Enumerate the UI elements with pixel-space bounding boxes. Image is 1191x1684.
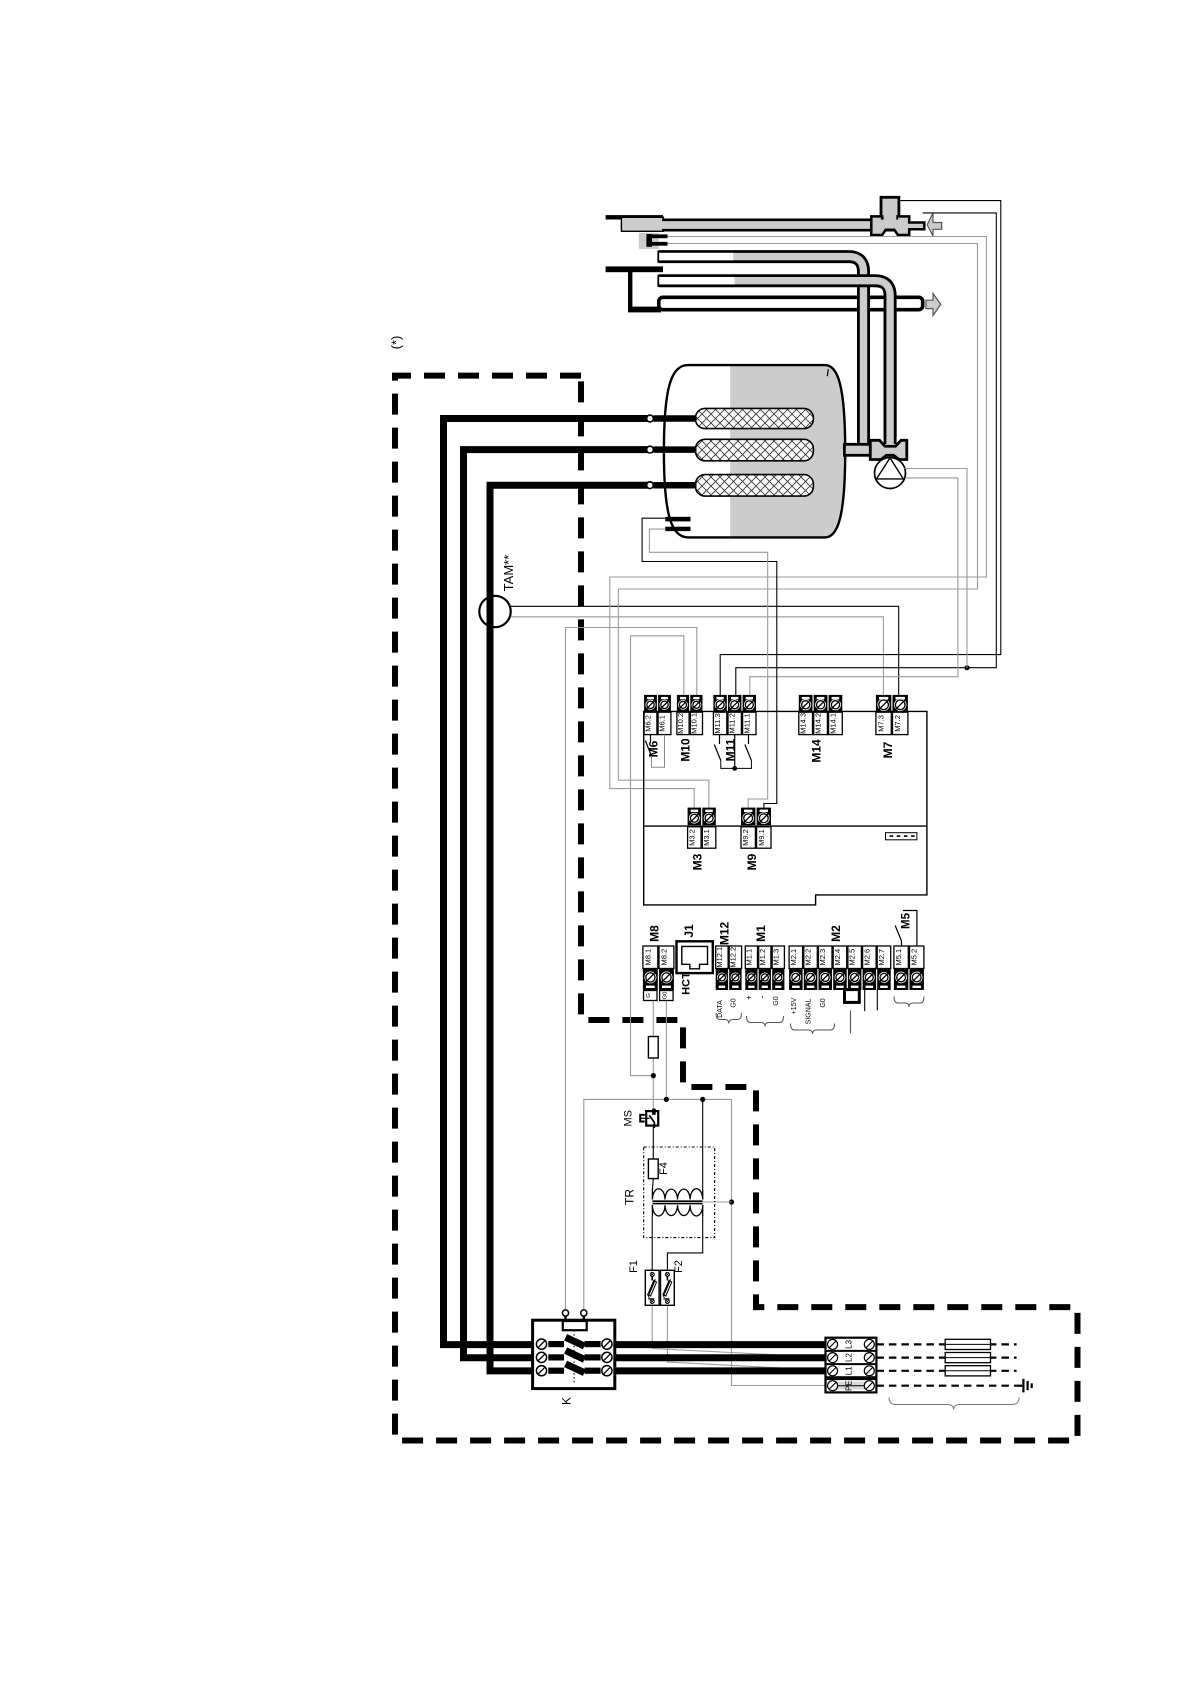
- board internal line: [644, 825, 927, 827]
- svg-text:M5: M5: [901, 912, 913, 929]
- svg-text:M7: M7: [881, 741, 895, 758]
- supply terminal block L3 L2 L1 PE: [826, 1338, 877, 1393]
- svg-text:HCT: HCT: [681, 972, 693, 995]
- wire F2 to L1: [667, 1304, 828, 1369]
- svg-text:M1: M1: [754, 925, 768, 942]
- terminal block M5: [894, 946, 924, 990]
- pipe hot outlet stub (black): [606, 266, 663, 272]
- svg-text:J1: J1: [682, 924, 696, 938]
- svg-text:+15V: +15V: [791, 997, 798, 1014]
- wire phase2 (thick): [464, 450, 650, 1358]
- wire MS to F4 to TR: [652, 1127, 655, 1189]
- svg-text:G: G: [646, 993, 652, 998]
- valve (on cold inlet): [871, 197, 924, 235]
- stub M2.7: [876, 990, 878, 1011]
- brace M12: [716, 1013, 742, 1024]
- mains lead with fuse at y=1344.4: [876, 1343, 1016, 1345]
- wire M10.2 to fuse line: [631, 636, 684, 1076]
- svg-text:M1.1: M1.1: [744, 949, 753, 966]
- svg-text:G0: G0: [820, 998, 827, 1007]
- terminal block M14: [799, 695, 843, 763]
- svg-text:M2.4: M2.4: [833, 949, 842, 966]
- pump manifold: [870, 440, 907, 459]
- svg-text:M7.2: M7.2: [893, 715, 902, 732]
- svg-text:F1: F1: [628, 1260, 640, 1273]
- svg-text:M12.1: M12.1: [715, 947, 724, 968]
- svg-text:M2.3: M2.3: [818, 949, 827, 966]
- element lead 2 with terminal: [654, 446, 697, 453]
- svg-text:M6.1: M6.1: [658, 715, 667, 732]
- svg-text:M7.3: M7.3: [877, 715, 886, 732]
- stub M2.6: [864, 990, 866, 1012]
- relay contact M11 (changeover): [714, 735, 751, 771]
- svg-text:+: +: [744, 995, 753, 1000]
- fuse (inline, small): [648, 1037, 658, 1059]
- terminal labels G G0: [644, 991, 658, 1001]
- meter TAM**: [479, 555, 516, 628]
- pipe hot outlet run: [659, 297, 923, 309]
- wire G0 bus: [584, 1099, 732, 1310]
- mains lead with fuse at y=1357.6: [876, 1356, 1016, 1358]
- transformer TR windings: [652, 1189, 702, 1217]
- contactor K: [533, 1310, 615, 1405]
- svg-text:M10: M10: [679, 738, 693, 762]
- tank bottom sensor ports: [665, 517, 690, 522]
- wire TR primary right: [702, 1099, 704, 1188]
- tank (water heater vessel): [664, 360, 850, 542]
- wire PE run: [732, 1099, 833, 1385]
- switch MS (manual): [623, 1109, 659, 1128]
- pipe hot outlet drop bracket: [628, 269, 632, 312]
- heating element R3: [696, 475, 814, 497]
- svg-text:M10.1: M10.1: [689, 713, 698, 734]
- svg-text:MS: MS: [623, 1110, 635, 1127]
- svg-text:M2: M2: [829, 925, 843, 942]
- wire valve to M11.2 (with pump junction): [736, 213, 997, 695]
- terminal block M2: [789, 925, 891, 990]
- terminal block M8: [643, 925, 674, 990]
- wire TR secondary right to F2: [667, 1216, 702, 1271]
- terminal block M1: [744, 925, 784, 990]
- brace M1: [747, 1016, 784, 1027]
- connector box under M2.4/M2.5: [845, 990, 860, 1003]
- svg-text:TR: TR: [623, 1189, 637, 1205]
- svg-text:M5.2: M5.2: [910, 949, 919, 966]
- wire inlet fitting to M3.2: [610, 237, 987, 808]
- mains PE lead: [876, 1385, 1016, 1387]
- tank outlet stub to pump: [844, 444, 870, 455]
- fuse F4: [648, 1159, 658, 1179]
- wire tank sensor to M9.2: [649, 529, 767, 808]
- arrow hot water out: [926, 294, 941, 316]
- svg-text:M11: M11: [724, 738, 738, 761]
- svg-text:M5.1: M5.1: [894, 949, 903, 966]
- svg-text:PE: PE: [845, 1380, 854, 1391]
- wire pump to M11.2 junction: [905, 469, 968, 668]
- svg-text:M9.1: M9.1: [757, 829, 766, 846]
- svg-text:(*): (*): [389, 336, 404, 350]
- svg-text:M2.1: M2.1: [789, 949, 798, 966]
- svg-text:M9: M9: [745, 853, 759, 870]
- svg-text:-: -: [757, 996, 767, 999]
- wire TAM to M7.2: [511, 606, 899, 695]
- svg-text:M11.2: M11.2: [728, 713, 737, 733]
- svg-text:M14.1: M14.1: [829, 713, 838, 734]
- wire M8.2 G0 down: [665, 990, 667, 1099]
- svg-text:M11.1: M11.1: [742, 713, 751, 733]
- control board outline: [644, 711, 927, 905]
- svg-text:M8.1: M8.1: [643, 949, 652, 966]
- wire TR core to PE: [703, 1201, 732, 1203]
- svg-text:SIGNAL: SIGNAL: [806, 999, 813, 1025]
- arrow cold water in: [927, 213, 942, 236]
- svg-text:M12.2: M12.2: [728, 947, 737, 968]
- mains lead with fuse at y=1370.8: [876, 1370, 1016, 1372]
- svg-text:K: K: [560, 1397, 574, 1405]
- connector 4-pin: [886, 833, 917, 840]
- terminal block M10: [676, 695, 703, 762]
- svg-text:M3: M3: [691, 853, 705, 870]
- wire K coil A to M10.1: [566, 628, 697, 1311]
- svg-text:M9.2: M9.2: [741, 829, 750, 846]
- heating element R1: [696, 408, 814, 428]
- element lead 3 with terminal: [654, 482, 697, 489]
- fuse holder F2: [661, 1260, 686, 1305]
- wire valve sensor to M11.3: [720, 201, 1001, 695]
- inlet fitting flange: [639, 233, 659, 249]
- pipe verticals overlay: [864, 290, 891, 449]
- terminal block M12: [715, 922, 742, 990]
- svg-text:M8: M8: [647, 925, 661, 942]
- pump: [875, 458, 906, 489]
- svg-text:M12: M12: [718, 922, 732, 946]
- pipe loop A: [658, 251, 863, 449]
- wire TR secondary left to F1: [651, 1216, 653, 1271]
- wire tank sensor to M9.1: [642, 518, 777, 807]
- svg-text:M2.7: M2.7: [877, 949, 886, 966]
- brace M5: [894, 997, 924, 1008]
- svg-text:TAM**: TAM**: [501, 555, 516, 592]
- terminal block M7: [876, 695, 908, 758]
- relay contact M6: [645, 735, 664, 768]
- fuse holder F1: [628, 1260, 659, 1305]
- svg-text:G0: G0: [773, 996, 780, 1005]
- svg-text:M2.5: M2.5: [848, 949, 857, 966]
- brace supply cable: [889, 1398, 1019, 1410]
- terminal block M6: [644, 695, 671, 757]
- pipe cold inlet stub (black): [606, 215, 663, 219]
- svg-text:M3.2: M3.2: [687, 829, 696, 846]
- svg-text:L2: L2: [845, 1353, 854, 1362]
- wire phase1 (thick): [444, 419, 650, 1345]
- wire phase3 (thick): [490, 485, 649, 1371]
- transformer TR box: [644, 1147, 715, 1238]
- svg-text:M10.2: M10.2: [676, 713, 685, 734]
- wire F1 to L2: [652, 1304, 828, 1356]
- wire K-L1 (thick): [615, 1367, 827, 1374]
- terminal block M3: [687, 808, 715, 871]
- svg-text:M1.3: M1.3: [771, 949, 780, 966]
- wire M8.1 G down through fuse: [650, 990, 653, 1109]
- svg-text:M14: M14: [810, 739, 824, 763]
- svg-text:DATA: DATA: [717, 1000, 724, 1018]
- svg-text:F2: F2: [673, 1260, 685, 1273]
- pipe cold inlet cap: [621, 217, 663, 231]
- svg-text:L3: L3: [845, 1339, 854, 1348]
- svg-text:M1.2: M1.2: [758, 949, 767, 966]
- thermostat contact M5: [895, 911, 917, 947]
- svg-text:F4: F4: [658, 1162, 670, 1175]
- svg-text:G0: G0: [662, 992, 668, 1000]
- wire TAM to M7.3: [511, 617, 884, 695]
- svg-text:L1: L1: [845, 1366, 854, 1375]
- pipe cold inlet run: [662, 220, 910, 230]
- element lead 1 with terminal: [654, 415, 697, 422]
- brace M2: [791, 1024, 835, 1035]
- wire inlet fitting to M3.1: [618, 244, 977, 808]
- svg-text:M2.2: M2.2: [804, 949, 813, 966]
- svg-text:M11.3: M11.3: [713, 713, 722, 733]
- svg-text:M3.1: M3.1: [702, 829, 711, 846]
- svg-text:M14.2: M14.2: [814, 713, 823, 734]
- wire K-L2 (thick): [615, 1354, 827, 1361]
- svg-text:M2.6: M2.6: [862, 949, 871, 966]
- svg-text:M6.2: M6.2: [644, 715, 653, 732]
- wire pump to M11.1: [750, 478, 958, 695]
- terminal block M11: [713, 695, 756, 761]
- dashed boundary (installer supply limit): [395, 376, 1078, 1441]
- ground symbol: [1022, 1379, 1024, 1393]
- connector J1 (HCT): [677, 924, 713, 995]
- pipe loop B: [658, 275, 890, 437]
- heating element R2: [696, 439, 814, 461]
- stub M2.5: [850, 1010, 852, 1033]
- wire K-L3 (thick): [615, 1341, 827, 1348]
- tank seam tick: [827, 369, 828, 376]
- terminal block M9: [741, 808, 771, 871]
- svg-text:G0: G0: [730, 998, 737, 1007]
- svg-text:M14.3: M14.3: [799, 713, 808, 734]
- svg-text:M8.2: M8.2: [660, 949, 669, 966]
